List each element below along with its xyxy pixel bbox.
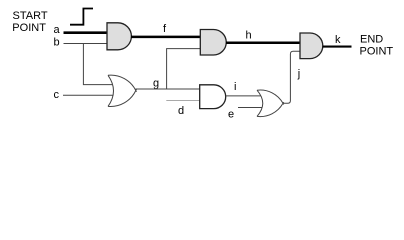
wire i (G5 output to OR G6 input) <box>226 95 262 97</box>
svg-text:c: c <box>54 89 60 101</box>
svg-text:b: b <box>54 37 60 49</box>
pulse symbol (rising-edge step) <box>70 9 93 25</box>
wire a (thick input to G1) <box>64 31 108 34</box>
wire c (input to OR gate G2) <box>63 94 114 96</box>
svg-text:END: END <box>360 33 383 45</box>
AND gate G1 (inputs a,b ; output f) <box>107 23 131 50</box>
wire e (input to OR G6) <box>238 107 264 109</box>
wire g (OR G2 output to AND G5 input) <box>136 88 201 90</box>
svg-text:d: d <box>178 105 184 117</box>
wire b (thin input to G1) <box>64 43 108 45</box>
svg-text:f: f <box>163 23 167 35</box>
svg-text:h: h <box>246 30 252 42</box>
AND gate G5 (inputs g,d ; output i) <box>200 85 226 109</box>
svg-text:g: g <box>153 78 159 90</box>
OR gate G6 (inputs i,e ; output j) <box>257 90 283 117</box>
wire j (OR G6 output up to G4 lower input) <box>283 51 301 103</box>
svg-text:a: a <box>54 24 61 36</box>
svg-text:POINT: POINT <box>12 22 46 34</box>
wire k (thick, G4 output to END POINT) <box>323 46 352 48</box>
svg-text:POINT: POINT <box>360 46 394 58</box>
OR gate G2 (inputs b,c ; output g) <box>108 75 136 106</box>
svg-text:e: e <box>228 109 234 121</box>
AND gate G4 (inputs h,j ; output k) <box>300 33 323 59</box>
wire d (gray, input to AND G5) <box>166 100 200 102</box>
wire g branch riser up to G3 lower input <box>167 49 201 89</box>
wire b branch riser down to OR gate G2 <box>83 44 112 85</box>
svg-text:i: i <box>234 81 236 93</box>
svg-text:j: j <box>297 68 300 80</box>
wire h (thick, G3 output to G4 input) <box>226 41 301 44</box>
svg-text:START: START <box>13 10 48 22</box>
AND gate G3 (inputs f,g ; output h) <box>200 30 226 56</box>
svg-text:k: k <box>335 34 341 46</box>
wire f (thick, G1 output to G3 input) <box>131 36 201 39</box>
